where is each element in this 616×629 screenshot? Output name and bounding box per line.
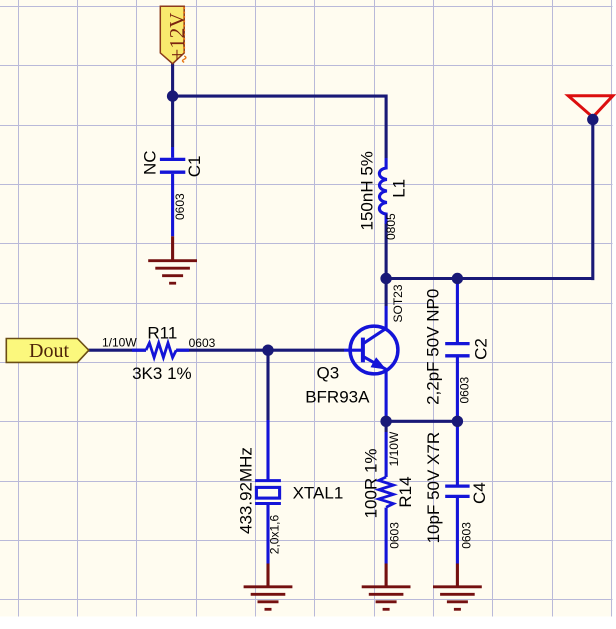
- svg-text:XTAL1: XTAL1: [293, 484, 344, 503]
- svg-text:100R 1%: 100R 1%: [362, 448, 381, 518]
- svg-text:150nH 5%: 150nH 5%: [358, 151, 377, 230]
- svg-text:NC: NC: [141, 150, 160, 175]
- svg-text:10pF 50V X7R: 10pF 50V X7R: [424, 432, 443, 544]
- svg-text:3K3 1%: 3K3 1%: [132, 364, 192, 383]
- svg-text:R14: R14: [396, 476, 415, 507]
- svg-text:BFR93A: BFR93A: [305, 388, 370, 407]
- svg-text:433.92MHz: 433.92MHz: [237, 447, 256, 534]
- svg-text:0603: 0603: [189, 336, 216, 350]
- svg-text:2,2pF 50V NP0: 2,2pF 50V NP0: [424, 289, 443, 405]
- svg-text:1/10W: 1/10W: [387, 431, 401, 466]
- svg-text:0603: 0603: [173, 193, 187, 220]
- svg-text:C1: C1: [185, 156, 204, 178]
- svg-text:+12V: +12V: [165, 13, 189, 61]
- svg-text:0603: 0603: [388, 522, 402, 549]
- svg-text:C2: C2: [472, 338, 491, 360]
- svg-text:0603: 0603: [460, 522, 474, 549]
- svg-text:Dout: Dout: [29, 340, 69, 362]
- svg-text:SOT23: SOT23: [391, 284, 405, 322]
- svg-text:C4: C4: [470, 482, 489, 504]
- svg-text:R11: R11: [147, 323, 177, 342]
- svg-text:1/10W: 1/10W: [102, 335, 137, 349]
- svg-text:Q3: Q3: [317, 364, 340, 383]
- svg-text:2,0x1,6: 2,0x1,6: [268, 515, 282, 555]
- svg-text:L1: L1: [390, 179, 409, 198]
- svg-text:0805: 0805: [384, 213, 398, 240]
- svg-text:0603: 0603: [458, 376, 472, 403]
